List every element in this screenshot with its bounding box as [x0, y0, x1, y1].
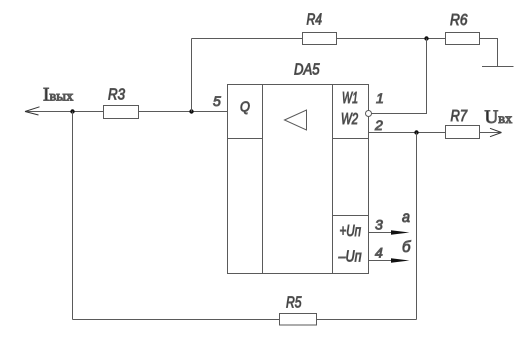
node junction left (output/feedback) [70, 109, 74, 113]
node junction pin 2 [414, 130, 418, 134]
svg-text:Q: Q [240, 99, 250, 116]
arrow Uвх (open arrowhead pointing right) [490, 128, 502, 136]
arrow pin 3 (filled) [391, 230, 410, 235]
Q box bottom line [228, 138, 263, 140]
ground [482, 66, 514, 68]
svg-text:–Uп: –Uп [338, 249, 362, 266]
svg-text:DA5: DA5 [294, 62, 320, 79]
svg-text:R3: R3 [108, 87, 125, 104]
svg-text:1: 1 [376, 90, 384, 106]
node junction pin5/feedback top [189, 109, 193, 113]
resistor R6 [446, 33, 480, 45]
svg-text:R5: R5 [286, 295, 302, 312]
pin 1 inversion circle [366, 111, 372, 117]
wire R4 to R6 [337, 38, 446, 40]
svg-text:W2: W2 [341, 111, 358, 128]
wire R3 to pin 5 [139, 111, 228, 113]
svg-text:5: 5 [213, 93, 221, 109]
resistor R5 [280, 314, 317, 326]
svg-text:a: a [402, 209, 410, 226]
wire R7 to output arrow [480, 132, 502, 134]
svg-text:Iвых: Iвых [43, 85, 73, 106]
pin 4 wire [369, 260, 394, 262]
resistor R7 [446, 126, 480, 139]
svg-text:3: 3 [375, 217, 383, 233]
svg-text:4: 4 [375, 245, 383, 261]
svg-text:R4: R4 [307, 12, 323, 29]
block divider right column [332, 85, 334, 274]
pin 2 wire [369, 132, 446, 134]
svg-text:R6: R6 [450, 12, 468, 29]
pin 1 wire [372, 39, 427, 114]
resistor R3 [104, 106, 139, 119]
wire bottom right segment [317, 319, 417, 321]
+Un cell top line [333, 215, 369, 217]
arrow Iвых (open arrowhead pointing left) [25, 107, 40, 115]
wire output left segment [25, 111, 104, 113]
svg-text:б: б [402, 239, 411, 256]
wire left vertical (output junction to bottom) [72, 112, 74, 320]
svg-text:Uвх: Uвх [485, 107, 513, 128]
W box bottom line [333, 138, 369, 140]
op-amp block DA5 outline [228, 85, 369, 274]
resistor R4 [303, 33, 337, 45]
block divider left column [262, 85, 264, 274]
wire bottom left segment [73, 319, 280, 321]
svg-text:R7: R7 [451, 108, 468, 125]
svg-text:W1: W1 [342, 90, 358, 107]
wire right vertical (pin2 to bottom) [416, 133, 418, 320]
node junction top right [424, 36, 428, 40]
amplifier triangle [285, 110, 307, 130]
arrow pin 4 (filled) [391, 258, 410, 263]
pin 3 wire [369, 232, 394, 234]
svg-text:+Uп: +Uп [340, 223, 362, 240]
svg-text:2: 2 [374, 117, 383, 133]
wire feedback top horizontal [192, 38, 303, 40]
wire R6 to ground [480, 39, 498, 67]
wire feedback vertical left [191, 39, 193, 112]
